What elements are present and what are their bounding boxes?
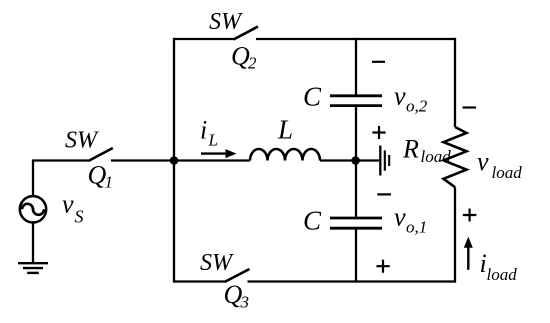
svg-text:S: S	[75, 207, 84, 227]
svg-text:SW: SW	[65, 128, 99, 154]
svg-text:3: 3	[240, 293, 250, 312]
arrowhead iL	[226, 149, 237, 158]
svg-text:load: load	[492, 163, 523, 182]
svg-text:i: i	[200, 115, 207, 144]
node junction at capacitor midpoint	[351, 156, 360, 165]
ground under source	[18, 262, 48, 264]
svg-text:v: v	[62, 190, 74, 219]
plus sign (top cap)	[372, 126, 385, 139]
wire node to ground stub	[356, 159, 379, 161]
wire source bottom to ground	[32, 223, 34, 264]
wire bottom-left segment	[174, 280, 225, 282]
wire between top cap and node	[355, 107, 357, 161]
wire right rail upper	[454, 38, 456, 127]
arrow iL shaft	[201, 152, 229, 154]
svg-text:load: load	[487, 265, 518, 284]
arrowhead iload	[464, 237, 473, 248]
svg-text:v: v	[477, 147, 489, 176]
arrow iload shaft	[467, 246, 469, 270]
svg-text:C: C	[303, 81, 322, 111]
svg-text:2: 2	[248, 54, 257, 73]
minus sign (bottom cap)	[377, 193, 391, 195]
resistor Rload	[444, 127, 467, 187]
svg-text:v: v	[394, 203, 406, 232]
svg-text:1: 1	[105, 173, 114, 192]
wire right rail lower	[454, 187, 456, 282]
svg-text:R: R	[402, 135, 419, 164]
switch Q1 blade	[88, 148, 113, 161]
capacitor C (bottom) plates	[330, 217, 382, 220]
svg-text:o,2: o,2	[406, 97, 428, 116]
switch Q3 blade	[225, 269, 250, 282]
wire source to switch Q1	[33, 161, 88, 197]
svg-text:SW: SW	[200, 250, 234, 276]
capacitor C (top) plates	[330, 94, 382, 97]
wire capacitor branch top	[355, 38, 357, 95]
wire between node and bottom cap	[355, 161, 357, 217]
svg-text:o,1: o,1	[406, 218, 427, 237]
svg-text:load: load	[421, 147, 452, 166]
wire left rail	[173, 38, 175, 283]
ground at node (rotated)	[379, 146, 381, 176]
svg-text:L: L	[277, 115, 293, 145]
wire bottom-right segment	[248, 280, 457, 282]
node junction on left rail	[170, 156, 179, 165]
wire Q1 to inductor	[111, 159, 250, 161]
wire top-left segment	[174, 38, 234, 40]
svg-text:SW: SW	[209, 9, 243, 35]
source vS circle	[20, 196, 46, 222]
wire inductor to node	[320, 159, 356, 161]
minus sign (load)	[463, 106, 477, 108]
switch Q2 blade	[234, 27, 259, 40]
wire bottom cap to bottom rail	[355, 229, 357, 282]
sine wave in source	[22, 204, 44, 215]
svg-text:v: v	[394, 81, 406, 110]
plus sign (load)	[463, 209, 477, 222]
minus sign (top cap)	[372, 61, 385, 63]
svg-text:L: L	[208, 130, 218, 149]
svg-text:C: C	[303, 205, 322, 235]
inductor L	[250, 149, 320, 161]
wire top-right segment	[256, 38, 456, 40]
plus sign (bottom cap)	[376, 260, 389, 273]
